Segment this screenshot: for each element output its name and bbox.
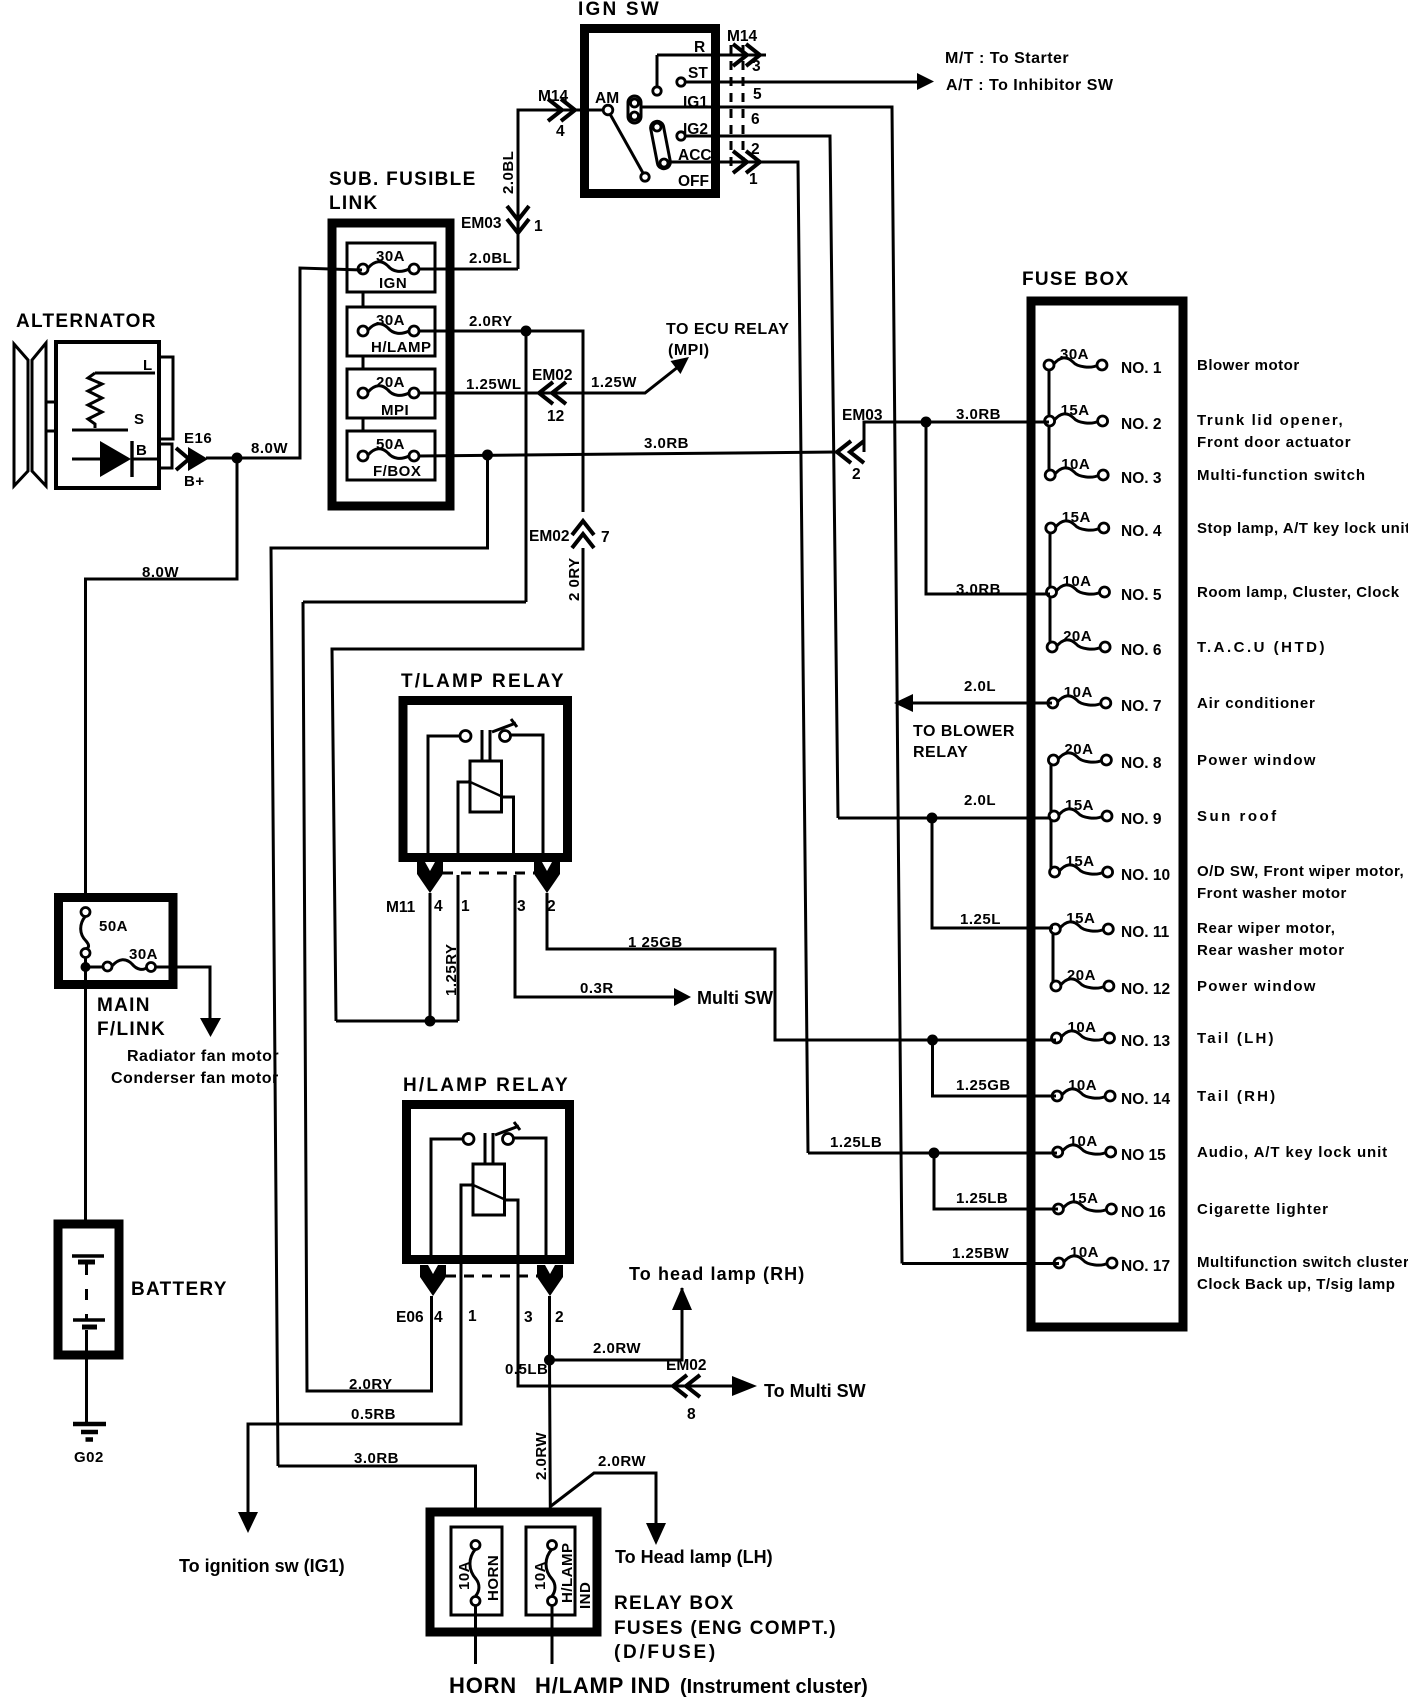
wire head lamp ind fuse output bbox=[551, 1605, 554, 1664]
IGN SW contact R bbox=[653, 55, 661, 95]
svg-text:BATTERY: BATTERY bbox=[131, 1279, 228, 1300]
svg-text:FUSES (ENG COMPT.): FUSES (ENG COMPT.) bbox=[614, 1618, 837, 1639]
svg-text:IND: IND bbox=[577, 1582, 594, 1609]
wire battery to ground bbox=[85, 1330, 88, 1423]
wire 0.5RB from H/LAMP pin 1 to ignition switch bbox=[248, 1261, 461, 1512]
wire 1.25LB branch to NO.16 bbox=[934, 1153, 1058, 1209]
svg-text:12: 12 bbox=[547, 408, 564, 425]
H/LAMP relay pin 4 blade terminal bbox=[420, 1265, 446, 1296]
wire IG2 (pin 2) bbox=[685, 136, 838, 818]
fuse NO10 description bbox=[1197, 863, 1404, 902]
fuse NO11 description bbox=[1197, 920, 1345, 959]
connector M14 dashed lines bbox=[731, 45, 743, 172]
svg-text:NO. 12: NO. 12 bbox=[1121, 981, 1170, 998]
wire 8.0W down to main fusible link bbox=[86, 458, 238, 912]
H/LAMP relay pin 2 blade terminal bbox=[537, 1265, 563, 1296]
fuse box bus NO.8-NO.10 bbox=[1050, 760, 1053, 872]
svg-text:T/LAMP RELAY: T/LAMP RELAY bbox=[401, 671, 566, 692]
svg-text:10A: 10A bbox=[1069, 1133, 1098, 1150]
svg-text:10A: 10A bbox=[1063, 573, 1092, 590]
svg-text:20A: 20A bbox=[1063, 628, 1092, 645]
svg-text:MAIN: MAIN bbox=[97, 995, 151, 1016]
main link 30A fuse bbox=[86, 946, 159, 972]
svg-text:0.5RB: 0.5RB bbox=[351, 1406, 396, 1423]
wire stub NO.5 feed bbox=[1023, 593, 1050, 596]
wire 2.0RY feed to pins 4 and 1 bbox=[336, 1020, 458, 1023]
wire 2.0BL from IGN fuse bbox=[419, 268, 518, 271]
H/LAMP relay contacts bbox=[463, 1134, 514, 1145]
relay box (eng compt fuses) bbox=[430, 1512, 597, 1632]
svg-text:3.0RB: 3.0RB bbox=[644, 435, 689, 452]
connector EM03 pin 2 chevron left bbox=[837, 441, 864, 463]
connector E16 arrow bbox=[176, 447, 208, 471]
fuse NO14 10A bbox=[1052, 1077, 1170, 1108]
fuse NO13 10A bbox=[1052, 1019, 1171, 1050]
alternator L terminal wire bbox=[95, 372, 155, 375]
wire 1.25LB to NO.15 audio bbox=[808, 1152, 1057, 1155]
svg-text:2: 2 bbox=[852, 466, 861, 483]
svg-text:IGN: IGN bbox=[379, 275, 407, 292]
wire IG1 (pin 6) bbox=[640, 107, 902, 1264]
svg-text:Sun roof: Sun roof bbox=[1197, 808, 1279, 825]
T/LAMP relay pin 4 blade terminal bbox=[417, 862, 443, 893]
svg-text:3.0RB: 3.0RB bbox=[354, 1450, 399, 1467]
fusible link 30A IGN bbox=[347, 243, 435, 292]
fuse NO8 20A bbox=[1048, 741, 1161, 772]
T/LAMP relay coil bbox=[470, 761, 502, 812]
svg-text:2.0RY: 2.0RY bbox=[469, 313, 513, 330]
H/LAMP relay armature bbox=[485, 1133, 493, 1164]
svg-text:15A: 15A bbox=[1061, 402, 1090, 419]
junction pin 4 feed bbox=[425, 1016, 436, 1027]
alternator pulley bbox=[14, 343, 57, 486]
fusible link 50A F/BOX bbox=[347, 431, 435, 480]
svg-text:0.5LB: 0.5LB bbox=[505, 1361, 548, 1378]
svg-text:Multi SW: Multi SW bbox=[697, 988, 773, 1008]
svg-text:10A: 10A bbox=[1068, 1019, 1097, 1036]
wire 1.25L branch to NO.11 bbox=[932, 818, 1053, 928]
svg-text:20A: 20A bbox=[376, 374, 405, 391]
H/LAMP relay pin dashed line bbox=[446, 1275, 537, 1278]
arrow to ignition sw bbox=[238, 1512, 258, 1533]
svg-text:2.0RY: 2.0RY bbox=[349, 1376, 393, 1393]
svg-text:Trunk lid opener,: Trunk lid opener, bbox=[1197, 412, 1344, 429]
svg-text:Front door actuator: Front door actuator bbox=[1197, 434, 1351, 451]
svg-text:F/BOX: F/BOX bbox=[373, 463, 421, 480]
svg-text:3: 3 bbox=[524, 1309, 533, 1326]
svg-text:E16: E16 bbox=[184, 430, 212, 447]
junction tail LH feed bbox=[927, 1035, 938, 1046]
svg-text:6: 6 bbox=[751, 111, 760, 128]
wire main link to battery bbox=[84, 987, 87, 1256]
wire 3.0RB from F/BOX fuse to EM03 bbox=[419, 452, 836, 456]
fuse NO5 10A bbox=[1047, 573, 1162, 604]
svg-text:3.0RB: 3.0RB bbox=[956, 406, 1001, 423]
IGN SW contact IG2 bbox=[677, 132, 685, 140]
svg-text:2.0RW: 2.0RW bbox=[598, 1453, 646, 1470]
svg-text:10A: 10A bbox=[1070, 1244, 1099, 1261]
svg-text:Power window: Power window bbox=[1197, 752, 1317, 769]
svg-text:Blower motor: Blower motor bbox=[1197, 357, 1300, 374]
svg-text:10A: 10A bbox=[456, 1561, 473, 1590]
svg-text:15A: 15A bbox=[1066, 853, 1095, 870]
svg-text:NO. 9: NO. 9 bbox=[1121, 811, 1162, 828]
svg-text:4: 4 bbox=[434, 1309, 443, 1326]
svg-text:Stop lamp, A/T key lock unit: Stop lamp, A/T key lock unit bbox=[1197, 520, 1408, 537]
fuse NO12 20A bbox=[1051, 967, 1170, 998]
svg-text:5: 5 bbox=[753, 86, 762, 103]
svg-text:MPI: MPI bbox=[381, 402, 409, 419]
svg-text:4: 4 bbox=[434, 898, 443, 915]
wire 2.0L to NO.9 sun roof bbox=[838, 817, 1051, 820]
IGN SW contact AM bbox=[603, 105, 613, 115]
svg-text:8: 8 bbox=[687, 1406, 696, 1423]
wire pin 2 1.25GB to fuse box bbox=[547, 893, 1050, 1040]
T/LAMP relay contacts bbox=[460, 731, 511, 742]
svg-text:2: 2 bbox=[555, 1309, 564, 1326]
svg-text:M14: M14 bbox=[538, 88, 569, 105]
svg-text:NO. 17: NO. 17 bbox=[1121, 1258, 1170, 1275]
wire stub NO.13 feed bbox=[1023, 1039, 1056, 1042]
svg-text:Power window: Power window bbox=[1197, 978, 1317, 995]
battery plates bbox=[72, 1256, 105, 1327]
H/LAMP relay coil diagonal bbox=[471, 1184, 506, 1200]
fuse NO2 15A bbox=[1045, 402, 1162, 433]
fuse NO1 30A bbox=[1044, 346, 1162, 377]
svg-text:To ignition sw (IG1): To ignition sw (IG1) bbox=[179, 1556, 345, 1576]
svg-text:Air conditioner: Air conditioner bbox=[1197, 695, 1316, 712]
fuse NO3 10A bbox=[1045, 456, 1162, 487]
wire through main link bbox=[84, 957, 87, 987]
head lamp indicator fuse 10A bbox=[526, 1527, 594, 1615]
wire AM from EM03 riser bbox=[518, 110, 604, 269]
battery box bbox=[58, 1224, 228, 1355]
fuse box bus NO.4-NO.6 bbox=[1049, 528, 1052, 647]
svg-text:(D/FUSE): (D/FUSE) bbox=[614, 1642, 718, 1663]
svg-text:3.0RB: 3.0RB bbox=[956, 581, 1001, 598]
junction sun roof feed bbox=[927, 813, 938, 824]
wire stub NO.14 feed bbox=[1023, 1095, 1056, 1098]
svg-text:G02: G02 bbox=[74, 1449, 104, 1466]
alternator body bbox=[56, 342, 159, 488]
svg-text:Room lamp, Cluster, Clock: Room lamp, Cluster, Clock bbox=[1197, 584, 1400, 601]
wire stub NO.2 feed bbox=[1023, 421, 1049, 424]
svg-text:ALTERNATOR: ALTERNATOR bbox=[16, 311, 157, 332]
svg-text:To head lamp (RH): To head lamp (RH) bbox=[629, 1264, 805, 1284]
H/LAMP relay contact wires bbox=[431, 1138, 546, 1261]
svg-text:M11: M11 bbox=[386, 899, 416, 916]
wire 30A output to radiator fans bbox=[155, 967, 210, 1018]
svg-text:B: B bbox=[136, 442, 147, 459]
fusible link 20A MPI bbox=[347, 369, 435, 419]
svg-text:ST: ST bbox=[688, 65, 708, 82]
wire 8.0W from alternator bbox=[206, 268, 362, 458]
sub fusible link box bbox=[329, 169, 477, 506]
svg-text:H/LAMP RELAY: H/LAMP RELAY bbox=[403, 1075, 570, 1096]
svg-text:Rear washer motor: Rear washer motor bbox=[1197, 942, 1345, 959]
wire pin 1 down bbox=[457, 875, 460, 1021]
ground G02 bbox=[73, 1424, 106, 1466]
svg-text:EM03: EM03 bbox=[461, 215, 502, 232]
svg-text:FUSE BOX: FUSE BOX bbox=[1022, 269, 1130, 290]
svg-text:NO. 8: NO. 8 bbox=[1121, 755, 1162, 772]
svg-text:1.25BW: 1.25BW bbox=[952, 1245, 1010, 1262]
svg-text:10A: 10A bbox=[1068, 1077, 1097, 1094]
svg-text:NO. 13: NO. 13 bbox=[1121, 1033, 1170, 1050]
svg-text:Conderser fan motor: Conderser fan motor bbox=[111, 1070, 279, 1087]
svg-text:Rear wiper motor,: Rear wiper motor, bbox=[1197, 920, 1336, 937]
svg-text:1: 1 bbox=[468, 1308, 477, 1325]
svg-text:30A: 30A bbox=[129, 946, 158, 963]
wire NO.7 to blower relay 2.0L bbox=[912, 702, 1052, 705]
main fusible link box MAIN F/LINK bbox=[59, 898, 174, 1041]
connector EM03 pin 1 chevron down bbox=[507, 206, 529, 233]
arrow to multi switch bbox=[674, 988, 691, 1006]
wire 1.25WL from MPI fuse bbox=[419, 363, 683, 393]
svg-text:8.0W: 8.0W bbox=[142, 564, 179, 581]
junction NO.2 feed branch bbox=[921, 417, 932, 428]
svg-text:OFF: OFF bbox=[678, 173, 709, 190]
IGN SW rotor contact capsule 2 bbox=[650, 120, 672, 170]
IGN SW switch arm bbox=[610, 114, 643, 173]
arrow to head lamp LH bbox=[646, 1523, 666, 1545]
svg-text:NO. 6: NO. 6 bbox=[1121, 642, 1162, 659]
connector EM02 pin 12 chevron left bbox=[539, 382, 566, 404]
fuse NO4 15A bbox=[1046, 509, 1162, 540]
svg-text:A/T : To Inhibitor SW: A/T : To Inhibitor SW bbox=[946, 77, 1114, 94]
svg-text:30A: 30A bbox=[1060, 346, 1089, 363]
svg-text:HORN: HORN bbox=[485, 1555, 502, 1601]
svg-text:NO 16: NO 16 bbox=[1121, 1204, 1166, 1221]
svg-text:15A: 15A bbox=[1069, 1190, 1098, 1207]
svg-text:10A: 10A bbox=[1061, 456, 1090, 473]
svg-text:R: R bbox=[694, 39, 705, 56]
alternator S terminal wire bbox=[72, 429, 128, 432]
T/LAMP relay pin dashed line bbox=[443, 872, 534, 875]
arrow to starter bbox=[917, 73, 934, 90]
svg-text:NO. 4: NO. 4 bbox=[1121, 523, 1162, 540]
horn fuse 10A bbox=[451, 1527, 502, 1615]
arrow to multi switch bbox=[732, 1376, 757, 1396]
svg-text:1.25L: 1.25L bbox=[960, 911, 1001, 928]
fuse box bus NO.1-NO.3 bbox=[1048, 365, 1051, 475]
svg-text:3: 3 bbox=[752, 58, 761, 75]
fuse NO17 description bbox=[1197, 1254, 1408, 1293]
wire 1.25GB branch to NO.14 bbox=[933, 1040, 1053, 1096]
svg-text:50A: 50A bbox=[376, 436, 405, 453]
fuse NO10 15A bbox=[1050, 853, 1171, 884]
fuse NO2 description bbox=[1197, 412, 1351, 451]
fuse NO15 10A bbox=[1053, 1133, 1166, 1164]
svg-text:(MPI): (MPI) bbox=[668, 342, 710, 359]
wire 1.25BW to NO.17 bbox=[902, 1262, 1059, 1265]
IGN SW contact ST bbox=[677, 78, 685, 86]
svg-text:Clock Back up, T/sig lamp: Clock Back up, T/sig lamp bbox=[1197, 1276, 1395, 1293]
alternator field winding bbox=[88, 373, 102, 428]
svg-text:2.0BL: 2.0BL bbox=[500, 151, 517, 194]
svg-text:15A: 15A bbox=[1062, 509, 1091, 526]
fuse NO6 20A bbox=[1047, 628, 1162, 659]
junction main link bbox=[81, 962, 91, 972]
alternator diode bbox=[72, 441, 159, 477]
svg-text:LINK: LINK bbox=[329, 193, 379, 214]
svg-text:RELAY: RELAY bbox=[913, 744, 968, 761]
wire 2.0RY to H/LAMP pin 4 bbox=[303, 602, 526, 1391]
junction 2.0RY branch bbox=[521, 326, 532, 337]
svg-text:10A: 10A bbox=[1064, 684, 1093, 701]
wire 3.0RB jog up to fuse box NO.2 bbox=[864, 422, 1049, 452]
head lamp relay H/LAMP RELAY bbox=[403, 1075, 570, 1260]
T/LAMP relay switch blade bbox=[492, 719, 517, 732]
wire 3.0RB to horn fuse bbox=[278, 1466, 476, 1545]
wire pin 4 down 1.25RY bbox=[429, 893, 432, 1021]
fuse box bus NO.11-NO.12 bbox=[1052, 929, 1055, 986]
fuse NO16 15A bbox=[1053, 1190, 1166, 1221]
svg-text:1: 1 bbox=[534, 218, 543, 235]
svg-text:Multi-function switch: Multi-function switch bbox=[1197, 467, 1366, 484]
connector EM02 pin 8 chevron left bbox=[673, 1375, 700, 1397]
svg-text:TO BLOWER: TO BLOWER bbox=[913, 723, 1015, 740]
svg-text:2.0L: 2.0L bbox=[964, 792, 996, 809]
T/LAMP relay pin 2 blade terminal bbox=[534, 862, 560, 893]
svg-text:1: 1 bbox=[461, 898, 470, 915]
svg-text:O/D SW, Front wiper motor,: O/D SW, Front wiper motor, bbox=[1197, 863, 1404, 880]
svg-text:7: 7 bbox=[601, 529, 610, 546]
IGN SW contact OFF bbox=[641, 173, 649, 181]
svg-text:E06: E06 bbox=[396, 1309, 424, 1326]
svg-text:(Instrument cluster): (Instrument cluster) bbox=[680, 1676, 868, 1698]
svg-text:50A: 50A bbox=[99, 918, 128, 935]
wire 2.0RY branch down bbox=[525, 331, 528, 602]
connector M14 pin 3 chevron bbox=[733, 44, 760, 66]
svg-text:F/LINK: F/LINK bbox=[97, 1019, 166, 1040]
fuse box bbox=[1022, 269, 1183, 1327]
fuse NO11 15A bbox=[1050, 910, 1169, 941]
T/LAMP relay coil diagonal bbox=[468, 781, 503, 797]
main link 50A fuse bbox=[81, 908, 128, 958]
svg-text:20A: 20A bbox=[1067, 967, 1096, 984]
svg-text:NO. 7: NO. 7 bbox=[1121, 698, 1161, 715]
svg-text:1.25GB: 1.25GB bbox=[956, 1077, 1011, 1094]
svg-text:M14: M14 bbox=[727, 28, 758, 45]
fusible link internal bus bbox=[362, 269, 365, 456]
wire 2.0RY below chevron bbox=[332, 548, 583, 1021]
wire ACC (pin 1) bbox=[668, 162, 808, 1153]
svg-text:2.0RW: 2.0RW bbox=[533, 1432, 550, 1480]
svg-text:1: 1 bbox=[749, 171, 758, 188]
svg-text:EM02: EM02 bbox=[666, 1357, 707, 1374]
ignition switch IGN SW bbox=[578, 0, 716, 194]
fuse NO7 10A bbox=[1048, 684, 1162, 715]
wire horn fuse output bbox=[474, 1605, 477, 1664]
arrow to ECU relay bbox=[671, 357, 690, 374]
wire 3.0RB branch to NO.5 bbox=[926, 422, 1050, 594]
svg-text:1.25LB: 1.25LB bbox=[830, 1134, 882, 1151]
svg-text:H/LAMP IND: H/LAMP IND bbox=[535, 1673, 671, 1698]
svg-text:30A: 30A bbox=[376, 312, 405, 329]
svg-text:1.25LB: 1.25LB bbox=[956, 1190, 1008, 1207]
wire pin 3 to multi switch 0.3R bbox=[515, 875, 676, 997]
junction head lamp feed bbox=[544, 1355, 555, 1366]
svg-text:NO. 3: NO. 3 bbox=[1121, 470, 1162, 487]
H/LAMP relay coil terminal wires bbox=[461, 1185, 518, 1261]
junction audio feed bbox=[929, 1148, 940, 1159]
svg-text:NO. 10: NO. 10 bbox=[1121, 867, 1170, 884]
svg-text:2.0BL: 2.0BL bbox=[469, 250, 512, 267]
svg-text:SUB. FUSIBLE: SUB. FUSIBLE bbox=[329, 169, 477, 190]
svg-text:EM02: EM02 bbox=[529, 528, 570, 545]
svg-text:Audio, A/T key lock unit: Audio, A/T key lock unit bbox=[1197, 1144, 1388, 1161]
svg-text:Cigarette lighter: Cigarette lighter bbox=[1197, 1201, 1329, 1218]
svg-text:Radiator fan motor: Radiator fan motor bbox=[127, 1048, 279, 1065]
svg-text:NO 15: NO 15 bbox=[1121, 1147, 1166, 1164]
svg-text:20A: 20A bbox=[1064, 741, 1093, 758]
wire 2.0RW branch to head lamp LH bbox=[551, 1473, 656, 1523]
wire 2.0RY from H/LAMP fuse bbox=[419, 331, 583, 512]
svg-text:HORN: HORN bbox=[449, 1673, 517, 1698]
connector M14 pin 4 chevron bbox=[548, 99, 575, 121]
svg-text:Front washer motor: Front washer motor bbox=[1197, 885, 1347, 902]
svg-text:2.0L: 2.0L bbox=[964, 678, 996, 695]
svg-text:15A: 15A bbox=[1066, 910, 1095, 927]
svg-text:1.25WL: 1.25WL bbox=[466, 376, 522, 393]
svg-text:TO ECU RELAY: TO ECU RELAY bbox=[666, 321, 789, 338]
IGN SW rotor contact capsule 1 bbox=[628, 96, 641, 123]
svg-text:RELAY BOX: RELAY BOX bbox=[614, 1593, 734, 1614]
svg-text:1.25W: 1.25W bbox=[591, 374, 637, 391]
fuse NO17 10A bbox=[1054, 1244, 1170, 1275]
alternator terminal tabs bbox=[159, 357, 173, 468]
svg-text:3: 3 bbox=[517, 898, 526, 915]
svg-text:2 0RY: 2 0RY bbox=[566, 557, 583, 601]
svg-text:M/T : To Starter: M/T : To Starter bbox=[945, 50, 1069, 67]
arrow to head lamp RH bbox=[672, 1287, 692, 1310]
svg-text:H/LAMP: H/LAMP bbox=[371, 339, 432, 356]
svg-text:NO. 2: NO. 2 bbox=[1121, 416, 1161, 433]
svg-text:To Multi SW: To Multi SW bbox=[764, 1381, 866, 1401]
junction F/BOX branch bbox=[482, 450, 493, 461]
wire 3.0RB battery branch down bbox=[271, 455, 488, 1466]
connector M14 pin 1 chevron bbox=[733, 151, 760, 173]
H/LAMP relay coil bbox=[473, 1164, 505, 1215]
svg-text:NO. 1: NO. 1 bbox=[1121, 360, 1162, 377]
svg-text:S: S bbox=[134, 411, 145, 428]
svg-text:Multifunction switch cluster,: Multifunction switch cluster, bbox=[1197, 1254, 1408, 1271]
wire H/LAMP pin 3 0.5LB to EM02 bbox=[518, 1261, 732, 1386]
svg-text:IGN SW: IGN SW bbox=[578, 0, 661, 20]
svg-text:To Head lamp (LH): To Head lamp (LH) bbox=[615, 1547, 773, 1567]
svg-text:EM02: EM02 bbox=[532, 367, 573, 384]
svg-text:8.0W: 8.0W bbox=[251, 440, 288, 457]
svg-text:4: 4 bbox=[556, 123, 565, 140]
wire H/LAMP pin 2 2.0RW bbox=[550, 1288, 683, 1545]
fuse NO9 15A bbox=[1049, 797, 1162, 828]
T/LAMP relay armature bbox=[482, 730, 490, 761]
svg-text:2.0RW: 2.0RW bbox=[593, 1340, 641, 1357]
svg-text:15A: 15A bbox=[1065, 797, 1094, 814]
svg-text:NO. 14: NO. 14 bbox=[1121, 1091, 1170, 1108]
arrow to blower relay bbox=[894, 694, 913, 712]
T/LAMP relay coil terminal wires bbox=[458, 782, 514, 858]
svg-text:L: L bbox=[143, 357, 153, 374]
svg-text:10A: 10A bbox=[532, 1561, 549, 1590]
svg-text:NO. 11: NO. 11 bbox=[1121, 924, 1170, 941]
fusible link 30A H/LAMP bbox=[347, 307, 435, 356]
svg-text:0.3R: 0.3R bbox=[580, 980, 614, 997]
svg-text:T.A.C.U (HTD): T.A.C.U (HTD) bbox=[1197, 639, 1327, 656]
wire ST to starter arrow bbox=[685, 81, 917, 84]
svg-text:Tail (LH): Tail (LH) bbox=[1197, 1030, 1276, 1047]
